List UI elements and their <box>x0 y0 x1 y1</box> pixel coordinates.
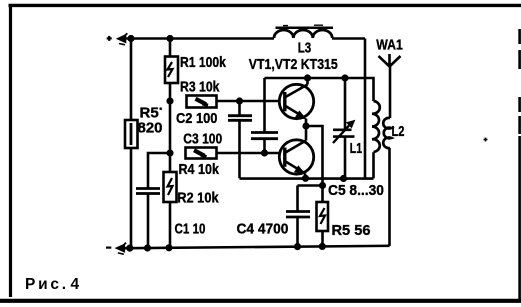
antenna WA1 <box>379 54 401 67</box>
wire: R4 right lead to VT2 base <box>217 152 280 155</box>
svg-text:VT1,VT2 KT315: VT1,VT2 KT315 <box>249 56 338 72</box>
resistor R4 10k <box>186 148 217 159</box>
svg-text:4: 4 <box>71 276 80 293</box>
border frame right (broken) <box>518 29 521 300</box>
wire: top rail <box>130 37 365 40</box>
svg-text:R5 56: R5 56 <box>332 223 371 239</box>
node: C4/R5 top junction <box>319 182 326 189</box>
svg-text:C5 8...30: C5 8...30 <box>328 183 384 200</box>
border frame bottom <box>0 299 521 303</box>
wire: top rail corner down (tank left line) <box>364 39 367 179</box>
node: R1/R3 junction <box>166 97 173 104</box>
capacitor C4 4700 <box>286 186 310 247</box>
capacitor C1 10 <box>136 153 170 248</box>
node: R5 bottom junction <box>319 243 326 250</box>
wire: VT1 emitter to C4/R5 node <box>306 126 323 186</box>
svg-text:R4 10k: R4 10k <box>179 160 220 177</box>
resistor R6 820 (on left rail) <box>125 120 138 148</box>
wire: left rail lower <box>130 148 133 248</box>
wire: C4 link <box>298 184 323 187</box>
svg-text:820: 820 <box>138 120 163 137</box>
wire: emitter rail <box>240 177 374 180</box>
wire: R3 right lead to VT1 base <box>217 100 281 103</box>
svg-text:C4 4700: C4 4700 <box>237 221 289 238</box>
trimmer capacitor C5 8-30 <box>333 78 355 178</box>
node: C5 bottom junction <box>340 175 347 182</box>
plus terminal <box>107 33 132 45</box>
inductor L1 <box>372 101 380 178</box>
svg-text:L2: L2 <box>392 122 405 139</box>
wire: left rail upper <box>130 39 133 121</box>
resistor R3 10k <box>187 96 217 108</box>
svg-text:C1 10: C1 10 <box>175 220 206 237</box>
border frame left <box>9 4 12 297</box>
transistor VT2 <box>279 126 313 178</box>
node: R2 bottom junction <box>165 244 172 251</box>
border frame top <box>9 4 521 7</box>
node: C1 bottom junction <box>144 244 151 251</box>
svg-text:R3 10k: R3 10k <box>180 78 220 94</box>
node: VT1 emitter / VT2 collector junction <box>302 122 309 129</box>
node: C3/R4 junction <box>261 149 268 156</box>
stray mark 1 <box>484 138 488 142</box>
svg-text:R1 100k: R1 100k <box>180 54 226 70</box>
inductor L2 <box>383 118 391 148</box>
node: bottom-left junction <box>126 245 133 252</box>
svg-text:C3 100: C3 100 <box>183 130 222 147</box>
svg-text:Рис.: Рис. <box>25 276 66 293</box>
wire: x170 line R3 to R4 <box>169 101 172 153</box>
label R6 value <box>138 105 163 137</box>
svg-text:C2 100: C2 100 <box>176 109 218 126</box>
node: C5 top junction <box>341 74 348 81</box>
node: top-left junction <box>127 35 134 42</box>
svg-text:L3: L3 <box>298 39 311 56</box>
wire: antenna feed <box>389 67 392 119</box>
node: R1 top junction <box>166 35 173 42</box>
minus terminal <box>106 243 132 255</box>
transistor VT1 <box>279 78 313 126</box>
wire: R1 top lead <box>169 39 172 57</box>
node: VT2 emitter junction <box>302 175 309 182</box>
capacitor C2 100 <box>228 101 252 178</box>
resistor R1 100k <box>165 57 178 84</box>
capacitor C3 100 <box>251 78 278 153</box>
node: VT1 collector junction <box>304 74 311 81</box>
svg-text:L1: L1 <box>350 139 362 156</box>
wire: R1 bottom lead <box>169 83 172 101</box>
wire: L2 bottom to ground rail <box>388 148 391 246</box>
node: R4/R2/C1 junction <box>166 149 173 156</box>
inductor L3 <box>274 25 333 38</box>
svg-text:R2 10k: R2 10k <box>177 189 219 206</box>
wire: bottom rail <box>122 246 390 248</box>
node: C4 bottom junction <box>294 243 301 250</box>
node: C2 top junction <box>236 97 243 104</box>
resistor R5 56 <box>317 186 329 247</box>
svg-text:WA1: WA1 <box>376 36 403 52</box>
wire: collector rail y78 <box>265 78 374 101</box>
resistor R2 10k <box>164 153 177 248</box>
